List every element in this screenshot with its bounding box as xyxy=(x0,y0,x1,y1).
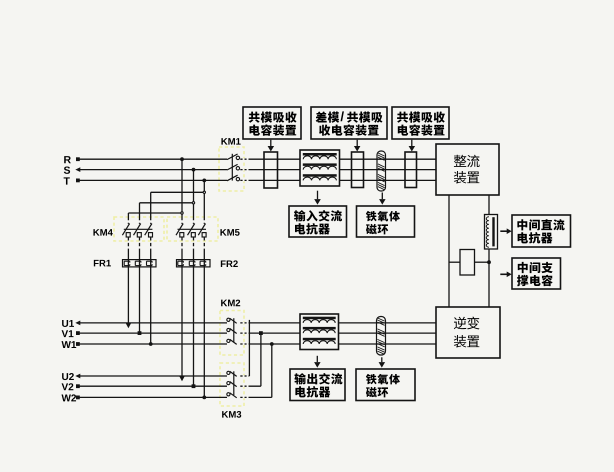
node DC cross xyxy=(487,260,491,264)
contactor KM1 pole S blade xyxy=(227,164,240,170)
capacitor device rect 2 xyxy=(352,152,364,188)
node KM5-V2 xyxy=(192,384,196,388)
label box input AC reactor xyxy=(289,206,347,237)
arrow box2 to capacitor rect2 xyxy=(354,140,361,152)
terminal U1 arrow xyxy=(75,321,80,326)
arrow to support capacitor label xyxy=(500,272,511,278)
terminal U2 arrow xyxy=(75,374,80,379)
contactor KM4 pole 2 blade xyxy=(134,224,142,238)
capacitor device rect 3 xyxy=(405,152,417,188)
label KM1 xyxy=(221,138,240,145)
node U1 tie xyxy=(0,0,1,1)
wire R drop to KM5 pole1 xyxy=(181,159,183,224)
label box diff/common-mode absorber xyxy=(311,107,387,139)
node KM4-W1 xyxy=(149,342,153,346)
wire U2 riser xyxy=(248,320,250,376)
label KM3 xyxy=(222,411,241,418)
wire DC right lower xyxy=(488,249,490,308)
DC link reactor xyxy=(485,215,498,250)
wire T drop to KM5 pole3 xyxy=(203,180,205,224)
contactor KM2 pole W1 blade xyxy=(227,339,237,344)
node KM4-V1 xyxy=(138,331,142,335)
node V1 tie xyxy=(259,331,263,335)
node T tap xyxy=(202,179,206,183)
wire S drop to KM5 pole2 xyxy=(193,170,195,224)
wire R branch to KM4 pole1 xyxy=(128,213,182,224)
terminal T xyxy=(76,179,80,183)
contactor KM5 linkage xyxy=(178,228,207,230)
wire T branch to KM4 pole3 xyxy=(151,192,205,224)
contactor KM2 pole U1 blade xyxy=(227,318,237,323)
wire DC right upper xyxy=(488,195,490,215)
wire S bus xyxy=(80,169,437,171)
arrow reactor2 to label xyxy=(314,356,321,368)
arrow reactor1 to label xyxy=(314,191,321,205)
wire KM5 pole1 to U2 xyxy=(181,237,183,376)
contactor KM2 dashed enclosure xyxy=(220,311,244,356)
label box output AC reactor xyxy=(290,369,345,401)
contactor KM1 pole R blade xyxy=(227,154,240,160)
terminal W2 xyxy=(76,396,80,400)
label KM2 xyxy=(221,300,240,307)
junction S branch xyxy=(192,201,195,204)
arrow box3 to capacitor rect3 xyxy=(409,140,416,152)
label box support capacitor xyxy=(512,258,561,289)
node W1 tie xyxy=(270,342,274,346)
node R tap xyxy=(180,157,184,161)
label U2 xyxy=(62,373,74,380)
label box DC reactor xyxy=(512,215,571,247)
rectifier unit box xyxy=(436,144,499,195)
contactor KM5 pole 3 blade xyxy=(198,224,206,238)
label T xyxy=(64,177,70,184)
contactor KM5 pole 2 blade xyxy=(188,224,196,238)
wire W2 riser xyxy=(271,344,273,397)
arrow to DC reactor label xyxy=(500,228,511,234)
label KM4 xyxy=(93,229,112,236)
node KM5-W2 xyxy=(202,396,206,400)
contactor KM3 pole V2 blade xyxy=(227,382,237,387)
terminal W1 xyxy=(76,342,80,346)
label box common-mode absorber 1 xyxy=(243,107,301,139)
label R xyxy=(64,156,71,163)
contactor KM5 pole 1 blade xyxy=(176,224,184,238)
wire KM4 pole1 to U1 xyxy=(127,237,129,323)
label KM5 xyxy=(220,229,239,236)
contactor KM4 dashed enclosure xyxy=(114,217,164,241)
wire V1 bus xyxy=(80,332,437,334)
inverter unit box xyxy=(436,307,500,358)
wire S branch to KM4 pole2 xyxy=(140,203,194,224)
support capacitor xyxy=(460,250,475,276)
wire KM4 pole3 to W1 xyxy=(150,237,152,344)
thermal relay FR1 xyxy=(123,260,157,267)
wire U2 line xyxy=(80,375,250,377)
ferrite ring 2 xyxy=(377,317,386,356)
wire T bus xyxy=(80,179,437,181)
contactor KM3 pole U2 blade xyxy=(227,371,237,376)
ferrite ring 1 xyxy=(377,151,386,191)
wire W1 bus xyxy=(80,343,437,345)
wire W2 line xyxy=(80,396,272,398)
label FR1 xyxy=(94,260,111,267)
label box ferrite ring 2 xyxy=(356,369,415,401)
contactor KM3 dashed enclosure xyxy=(220,363,244,406)
contactor KM1 dashed enclosure xyxy=(219,147,244,191)
contactor KM4 pole 1 blade xyxy=(122,224,130,238)
junction T branch xyxy=(203,191,206,194)
contactor KM4 pole 3 blade xyxy=(145,224,153,238)
label U1 xyxy=(62,320,74,327)
contactor KM3 linkage xyxy=(233,371,235,395)
output AC reactor xyxy=(300,314,339,350)
wire KM5 pole2 to V2 xyxy=(193,237,195,386)
node KM4-U1 xyxy=(126,323,131,328)
label FR2 xyxy=(221,260,238,267)
contactor KM4 linkage xyxy=(124,228,153,230)
wire R bus xyxy=(80,158,437,160)
terminal R xyxy=(76,157,80,161)
contactor KM1 pole T blade xyxy=(227,175,240,181)
wire DC cross xyxy=(449,261,489,263)
node KM5-U2 xyxy=(179,376,184,381)
contactor KM2 pole V1 blade xyxy=(227,328,237,333)
node S tap xyxy=(192,168,196,172)
contactor KM5 dashed enclosure xyxy=(167,217,218,241)
contactor KM3 pole W2 blade xyxy=(227,393,237,398)
label W1 xyxy=(62,341,77,348)
wire V2 line xyxy=(80,385,261,387)
wire KM5 pole3 to W2 xyxy=(203,237,205,397)
label W2 xyxy=(62,394,77,401)
arrow box1 to capacitor rect1 xyxy=(268,140,275,152)
label box ferrite ring 1 xyxy=(357,206,415,237)
contactor KM1 linkage xyxy=(231,154,233,181)
label V1 xyxy=(62,330,74,337)
label S xyxy=(64,166,70,173)
wire KM4 pole2 to V1 xyxy=(139,237,141,333)
label box common-mode absorber 2 xyxy=(392,107,449,139)
terminal V1 xyxy=(76,331,80,335)
wire DC left xyxy=(448,195,450,307)
wire U1 bus xyxy=(80,322,437,324)
arrow ring2 to label xyxy=(379,357,386,367)
input AC reactor xyxy=(300,150,340,186)
terminal V2 xyxy=(76,384,80,388)
label V2 xyxy=(62,383,74,390)
wire dash gaps at contactor outputs xyxy=(243,158,249,398)
thermal relay FR2 xyxy=(177,260,211,267)
contactor KM2 linkage xyxy=(233,318,235,342)
junction R branch xyxy=(180,211,183,214)
arrow ring1 to label xyxy=(379,193,386,205)
wire V2 riser xyxy=(260,333,262,386)
terminal S arrow xyxy=(75,167,80,172)
capacitor device rect 1 xyxy=(264,152,278,188)
